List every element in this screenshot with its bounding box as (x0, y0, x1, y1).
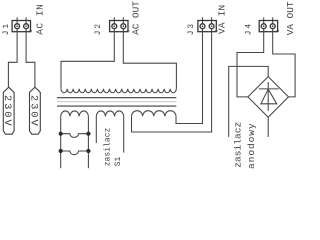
transformer secondary winding 3 (132, 111, 176, 117)
junction dot row2 right (86, 149, 90, 153)
svg-text:1: 1 (29, 29, 34, 32)
svg-text:zasilacz: zasilacz (233, 122, 244, 168)
connector J4 (259, 17, 277, 31)
svg-text:VA OUT: VA OUT (285, 1, 296, 35)
wire winding3 right end to J3 pin1 (176, 32, 203, 124)
svg-text:S1: S1 (114, 156, 123, 166)
transformer secondary winding 1 (61, 111, 89, 116)
svg-text:J4: J4 (245, 22, 253, 35)
wire winding3 left end to J3 pin2 (132, 32, 212, 132)
wire winding2 left end stub (95, 116, 97, 143)
transformer T1 primary winding (61, 89, 176, 93)
svg-text:J2: J2 (95, 22, 103, 35)
wire J1 pin2 to 230V flag right (26, 32, 35, 87)
net flag 230V (left) (1, 87, 14, 134)
wire J2 pin2 to primary right end (123, 32, 176, 89)
bridge rectifier D1 (248, 77, 289, 118)
wire bridge AC bottom stub (dangling) (267, 117, 269, 137)
svg-text:AC OUT: AC OUT (131, 1, 142, 35)
wire winding1 left end down (60, 116, 62, 168)
svg-text:AC IN: AC IN (34, 4, 45, 35)
jumper row 2 (61, 151, 89, 155)
connector J1 (12, 17, 30, 31)
svg-text:1: 1 (276, 29, 281, 32)
transformer core line bottom (57, 105, 176, 107)
connector J2 (110, 17, 128, 31)
junction dot row2 left (59, 149, 63, 153)
net flag 230V (right) (27, 87, 40, 134)
svg-text:J1: J1 (3, 22, 11, 35)
junction dot row1 right (86, 132, 90, 136)
svg-text:J3: J3 (188, 22, 196, 35)
svg-text:230V: 230V (1, 95, 13, 128)
wire J4 pin1 to bridge left corner (237, 32, 264, 97)
svg-text:anodowy: anodowy (246, 122, 257, 169)
junction dot row1 left (59, 132, 63, 136)
wire winding1 right end down (87, 116, 89, 168)
wire J1 pin1 to 230V flag left (8, 32, 17, 87)
svg-text:zasilacz: zasilacz (104, 127, 113, 166)
transformer shield line (middle, light) (57, 101, 176, 103)
svg-text:1: 1 (126, 29, 131, 32)
jumper row 1 (61, 134, 89, 138)
wire J4 pin2 to bridge right corner (273, 32, 295, 97)
connector J3 (198, 17, 216, 31)
wire winding2 right end stub (123, 116, 125, 152)
svg-text:1: 1 (215, 29, 220, 32)
wire J2 pin1 to primary left end (61, 32, 114, 89)
svg-text:230V: 230V (27, 95, 39, 128)
transformer core line top (57, 97, 176, 99)
wire bridge AC top net (dangling) (229, 66, 269, 136)
transformer secondary winding 2 (96, 111, 123, 116)
